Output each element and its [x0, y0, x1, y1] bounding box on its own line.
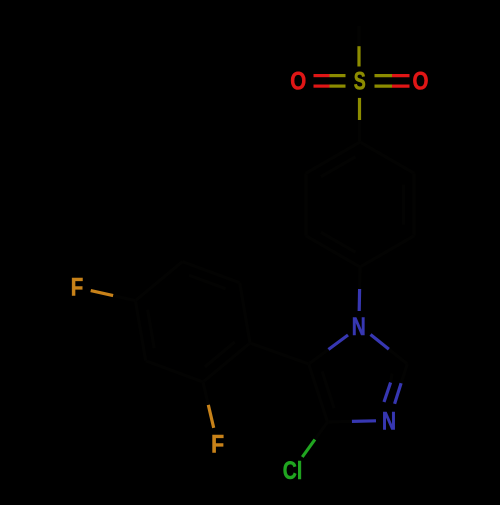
svg-text:F: F: [211, 430, 224, 458]
svg-text:Cl: Cl: [283, 457, 303, 485]
svg-text:O: O: [290, 68, 306, 96]
svg-text:N: N: [382, 407, 396, 435]
svg-text:F: F: [71, 274, 84, 302]
svg-text:S: S: [354, 67, 366, 95]
svg-text:O: O: [413, 68, 429, 96]
svg-text:N: N: [352, 313, 366, 341]
